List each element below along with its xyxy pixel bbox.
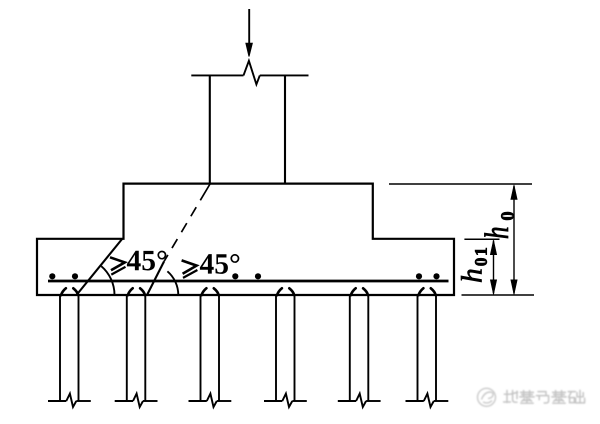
char ji: [520, 391, 534, 404]
pile cap (stepped footing) outline: [37, 184, 454, 295]
column break line (top): [191, 61, 308, 85]
h0 dimension line with arrows: [511, 185, 517, 295]
pile 6: [406, 288, 449, 407]
label >=45 (left): [110, 251, 166, 275]
label >=45 (right): [182, 254, 240, 278]
column right edge: [284, 75, 286, 184]
left 45-degree shear line: [77, 239, 123, 296]
pile 3: [189, 288, 232, 407]
char yu: [536, 392, 548, 403]
right 45-degree dashed line from column edge: [164, 184, 210, 262]
column left edge: [209, 75, 211, 184]
bottom rebar line: [48, 280, 449, 283]
char di: [504, 391, 518, 403]
right angle arc: [167, 271, 178, 295]
pile 1: [48, 288, 91, 407]
right 45-degree solid continuation: [147, 262, 164, 296]
char chu: [568, 390, 584, 403]
dimension extension lines: [389, 184, 534, 295]
char ji 2: [552, 391, 566, 404]
load arrow P: [246, 9, 252, 57]
pile 2: [115, 288, 158, 407]
h01 label: [461, 248, 487, 282]
h01 dimension line with arrows: [490, 240, 496, 295]
piles: [48, 288, 448, 407]
pile 5: [338, 288, 381, 407]
rebar dots: [49, 273, 439, 279]
watermark logo icon: [478, 388, 496, 406]
left angle arc: [101, 266, 114, 295]
watermark text: vector strokes imitating CJK: [504, 390, 585, 403]
h0 label: [484, 212, 513, 238]
pile 4: [264, 288, 307, 407]
